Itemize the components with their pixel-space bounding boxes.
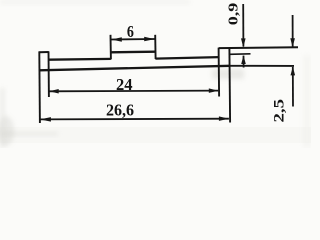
profile: strip top edge right portion	[155, 57, 218, 59]
arrowhead 6 left	[111, 37, 122, 42]
arrowhead 0,9 bottom pointing up	[241, 55, 246, 64]
profile: left tab top edge	[39, 51, 49, 53]
dimension line 24	[49, 90, 218, 93]
profile: right step-up edge + 24 extension line	[218, 48, 221, 97]
arrowhead 24 left	[49, 89, 59, 94]
dimension 0,9 upper leader stem	[242, 4, 244, 47]
arrowhead 6 right	[144, 37, 155, 42]
dimension line 26,6	[40, 118, 229, 121]
profile: step top edge	[111, 51, 156, 54]
profile: strip bottom edge	[39, 66, 230, 71]
scan background	[0, 0, 311, 148]
extension line for 0,9 lower bound	[230, 53, 251, 56]
svg-text:0,9: 0,9	[226, 2, 241, 25]
dimension 2,5 lower leader stem	[292, 67, 294, 107]
scan smudge near right end of 24 extension	[212, 69, 244, 79]
profile: strip bottom extension to 2,5	[230, 65, 294, 67]
profile: step right edge + 6 extension line	[154, 35, 156, 59]
scan smudge bottom-left blob	[0, 116, 14, 146]
svg-text:26,6: 26,6	[106, 100, 134, 119]
dimension line 6	[111, 38, 155, 41]
profile: right end edge + 26,6 extension line	[228, 48, 231, 123]
arrowhead 2,5 bottom pointing up	[291, 67, 296, 76]
arrowhead 2,5 top pointing down	[290, 38, 295, 47]
scan smudge right edge	[303, 55, 311, 148]
arrowhead 0,9 top pointing down	[241, 38, 246, 47]
dimension 2,5 upper leader stem	[292, 15, 294, 47]
arrowhead 24 right	[209, 88, 219, 93]
arrowhead 26,6 right	[219, 116, 229, 121]
scan smudge left edge bottom	[0, 88, 5, 148]
scan smudge bottom band	[0, 127, 311, 143]
scan smudge bottom streak	[0, 132, 58, 136]
svg-text:6: 6	[127, 22, 134, 41]
svg-text:2,5: 2,5	[271, 99, 287, 123]
profile: step left edge + 6 extension line	[110, 35, 112, 60]
profile: left tab left edge + 26,6 extension line	[38, 51, 41, 123]
profile: strip top edge left portion	[49, 58, 111, 61]
svg-text:24: 24	[116, 75, 133, 94]
dimension 0,9 lower leader stem	[243, 56, 245, 68]
arrowhead 26,6 left	[40, 117, 51, 122]
profile: right lip top edge + 0,9 and 2,5 extension line	[219, 46, 298, 49]
scan smudge top edge	[0, 0, 190, 4]
profile: left tab right edge + 24 extension line	[48, 51, 50, 97]
